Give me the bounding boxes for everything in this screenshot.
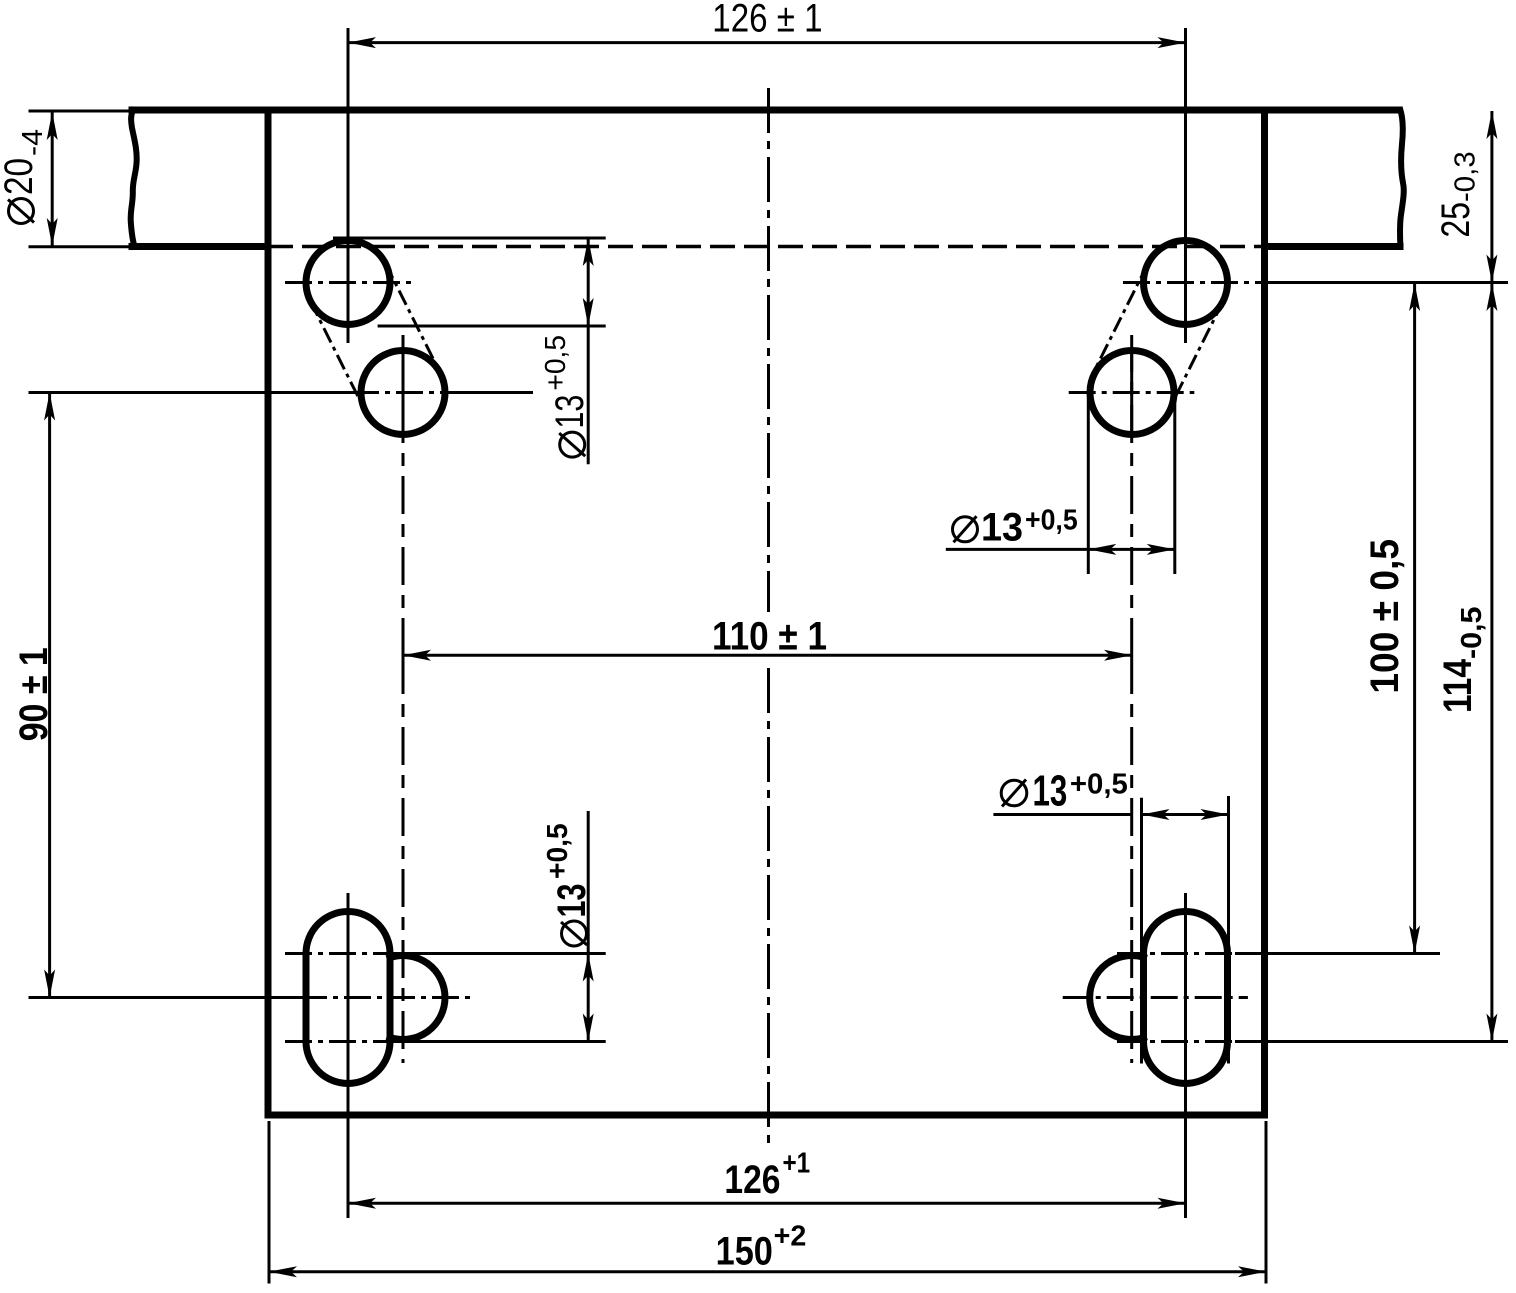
svg-text:+0,5: +0,5 xyxy=(1070,768,1128,800)
dim d20 text xyxy=(0,129,49,224)
keyhole bump bottom-left xyxy=(390,956,445,1040)
dim 150 line xyxy=(269,1270,1266,1273)
keyhole stadium bottom-right xyxy=(1144,912,1228,1084)
centerline col x348 bottom xyxy=(347,893,350,1218)
svg-text:-0,3: -0,3 xyxy=(1450,151,1482,202)
svg-text:13: 13 xyxy=(981,505,1023,549)
dim 100 text xyxy=(1363,539,1407,694)
dim d13 mid-right line xyxy=(946,548,1175,551)
centerline col x1185.5 top xyxy=(1184,28,1187,343)
extension row y392.5 left xyxy=(29,391,353,394)
svg-text:-4: -4 xyxy=(17,129,49,156)
dim d13 top-left line xyxy=(587,238,590,464)
centerline row bottom-right xyxy=(1063,996,1248,999)
dim d20 ext bottom xyxy=(29,245,133,248)
dim 150 ext left xyxy=(268,1121,271,1284)
svg-text:13: 13 xyxy=(548,395,592,429)
dim 25 line xyxy=(1490,111,1493,283)
centerline row y1041.5 right xyxy=(1117,1040,1235,1043)
slot phantom tangent top-right A xyxy=(1168,301,1223,411)
dim d13 bottom-right ext left xyxy=(1140,798,1143,1064)
centerline row bottom-left xyxy=(300,996,473,999)
shaft bottom edge right xyxy=(1265,243,1401,250)
extension row y392.5 left tail xyxy=(465,391,533,394)
centerline row y1041.5 left xyxy=(285,1040,397,1043)
svg-text:+2: +2 xyxy=(774,1221,807,1253)
solid over circle x1132 xyxy=(1130,347,1133,438)
shaft break wavy right xyxy=(1400,110,1404,247)
plate right edge xyxy=(1261,110,1268,1115)
dim d13 top-left text xyxy=(540,335,592,457)
dim d20 line xyxy=(51,112,54,246)
slot phantom tangent top-left B xyxy=(386,264,441,374)
dim d13 bottom-left text xyxy=(542,823,594,946)
svg-text:+0,5: +0,5 xyxy=(542,823,574,879)
extension row y282.5 right xyxy=(1265,281,1509,284)
keyhole stadium bottom-left xyxy=(306,912,390,1084)
centerline col x1185.5 bottom xyxy=(1184,893,1187,1218)
extension row y953.5 left xyxy=(397,952,606,955)
extension row y997.5 left xyxy=(29,996,301,999)
hole circle top-right inner xyxy=(1090,351,1174,435)
dim 126 top line xyxy=(348,41,1186,44)
svg-text:150: 150 xyxy=(716,1229,773,1273)
dim d13 bottom-right ext right xyxy=(1227,796,1230,1064)
svg-text:+1: +1 xyxy=(783,1147,811,1179)
centerline row y392.5 left xyxy=(352,391,465,394)
svg-text:+0,5: +0,5 xyxy=(1025,504,1078,536)
dim d13 bottom-right line xyxy=(993,813,1131,816)
dim 100 line xyxy=(1413,283,1416,954)
shaft break wavy left xyxy=(131,110,137,247)
long centerline col x403 xyxy=(402,335,405,656)
extension row y1041.5 left xyxy=(397,1040,606,1043)
hole circle top-left outer xyxy=(306,241,390,325)
long centerline col x1132 xyxy=(1130,335,1133,656)
dim 90 line xyxy=(48,393,51,998)
shaft top edge xyxy=(132,107,1399,114)
svg-text:13: 13 xyxy=(1033,767,1068,816)
solid over circle x403 xyxy=(402,347,405,438)
extension row y1041.5 right xyxy=(1235,1040,1508,1043)
svg-text:-0,5: -0,5 xyxy=(1456,607,1488,660)
centerline row top-right outer + extension xyxy=(1123,281,1265,284)
dim 114 line xyxy=(1490,283,1493,1042)
dim d20 ext top xyxy=(29,110,133,113)
dim d13 mid-right text xyxy=(953,504,1078,549)
svg-text:20: 20 xyxy=(0,158,41,195)
dim d13 top-left ext bottom xyxy=(378,325,606,328)
svg-text:90 ± 1: 90 ± 1 xyxy=(12,647,56,741)
centerline row top-right inner xyxy=(1069,391,1195,394)
centerline col x348 top xyxy=(347,28,350,343)
svg-text:126 ± 1: 126 ± 1 xyxy=(712,0,822,41)
main vertical centerline xyxy=(767,88,770,612)
dim d13 bottom-right text xyxy=(1001,767,1128,816)
plate left edge xyxy=(265,110,272,1115)
centerline row top-left outer xyxy=(285,281,415,284)
svg-text:13: 13 xyxy=(550,884,594,918)
dim 150 ext right xyxy=(1265,1121,1268,1284)
dim d13 mid-right ext right xyxy=(1173,398,1176,574)
dim 110 line xyxy=(403,654,1132,657)
centerline row y953.5 left xyxy=(285,952,397,955)
shaft hidden edge (dashed) behind plate xyxy=(268,245,1265,249)
keyhole bump bottom-right xyxy=(1090,956,1144,1040)
slot phantom tangent top-left A xyxy=(310,301,365,411)
dim 114 text xyxy=(1436,607,1488,714)
svg-text:+0,5: +0,5 xyxy=(540,335,572,391)
svg-text:100 ± 0,5: 100 ± 0,5 xyxy=(1363,539,1407,694)
hole circle top-left inner xyxy=(361,351,445,435)
slot phantom tangent top-right B xyxy=(1093,264,1148,374)
dim 126 bottom line xyxy=(348,1202,1186,1205)
svg-text:126: 126 xyxy=(724,1158,780,1202)
shaft bottom edge left xyxy=(132,243,268,250)
dim d13 top-left ext top xyxy=(333,237,606,240)
dim 90 ext top xyxy=(29,391,353,394)
dim 90 text xyxy=(12,647,56,741)
dim d13 bottom-left line xyxy=(587,811,590,1042)
extension row y953.5 right xyxy=(1235,952,1440,955)
svg-text:25: 25 xyxy=(1434,202,1478,238)
plate bottom edge xyxy=(268,1112,1265,1119)
centerline row y953.5 right xyxy=(1117,952,1235,955)
dim d13 mid-right ext left xyxy=(1087,398,1090,574)
hole circle top-right outer xyxy=(1144,241,1228,325)
dim 25 text xyxy=(1434,151,1482,237)
svg-text:110 ± 1: 110 ± 1 xyxy=(712,614,827,658)
svg-text:114: 114 xyxy=(1436,658,1480,713)
